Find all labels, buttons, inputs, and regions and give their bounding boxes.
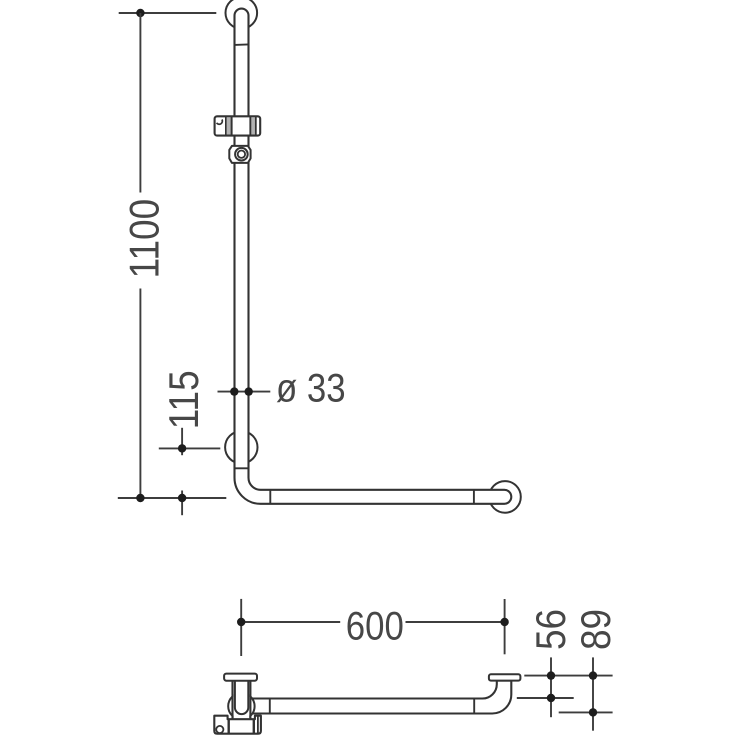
svg-text:600: 600 xyxy=(346,603,404,648)
bracket shaded band right xyxy=(251,117,255,134)
diameter leader dot right xyxy=(245,387,253,395)
89 datum dot xyxy=(589,671,597,679)
label diameter 33 xyxy=(276,365,346,410)
plan: bar right inner line xyxy=(257,716,259,734)
bracket divider line right xyxy=(255,117,257,136)
top wall rosette (behind tube) xyxy=(226,0,258,29)
600 dimension line left segment xyxy=(241,621,340,623)
plan: clamp left edge xyxy=(227,719,229,734)
plan: holder bar body with clamp notch xyxy=(214,716,261,734)
svg-text:ø 33: ø 33 xyxy=(276,365,346,410)
bottom extension line of front view xyxy=(118,497,227,499)
svg-text:56: 56 xyxy=(528,609,575,650)
bracket shaded band left xyxy=(227,117,231,134)
tube seam above bend xyxy=(235,467,249,469)
svg-text:89: 89 xyxy=(573,609,620,650)
600 right extension line xyxy=(504,599,506,654)
600 left dot xyxy=(237,618,245,626)
grab rail tube: vertical rail, 90-degree bend, horizontal bar with end cap xyxy=(235,9,512,504)
slider ring inner xyxy=(238,151,245,158)
56 vertical line xyxy=(550,657,552,717)
1100 bottom dot xyxy=(136,494,144,502)
shower head holder bracket body xyxy=(215,116,261,135)
plan: clamp right edge xyxy=(253,719,255,734)
plan: rail stub sleeve xyxy=(234,681,250,720)
wall face extension line (56/89 datum) xyxy=(524,675,612,677)
bracket divider line left inner xyxy=(231,117,233,136)
label 56 xyxy=(528,609,575,650)
plan: left wall plate xyxy=(224,674,257,681)
bracket screw hole xyxy=(217,120,223,125)
svg-text:115: 115 xyxy=(161,370,208,429)
56 end dot xyxy=(547,694,555,702)
89 vertical line xyxy=(592,657,594,730)
600 dimension line right segment xyxy=(406,621,505,623)
plan: horizontal bar tube with right bend to wall xyxy=(250,681,511,714)
1100 top dot xyxy=(136,9,144,17)
1100 dimension line upper segment xyxy=(139,13,141,193)
115 upper extension line xyxy=(159,447,221,449)
right wall rosette (behind tube end, horizontal bar) xyxy=(489,481,521,513)
diameter leader dot left xyxy=(230,387,238,395)
56 datum dot xyxy=(547,671,555,679)
tube seam right of bend xyxy=(269,490,271,504)
plan: tube seam right xyxy=(473,699,475,714)
89 measure line xyxy=(559,711,613,713)
slider ring outer xyxy=(235,148,248,161)
bracket divider line left xyxy=(225,117,227,136)
plan: holder disc behind rail stub xyxy=(228,693,254,719)
115 upper dot xyxy=(178,444,186,452)
label 115 xyxy=(161,370,208,429)
tube seam below top rosette xyxy=(235,43,249,46)
1100 dimension line lower segment xyxy=(139,289,141,499)
plan: tube seam left xyxy=(269,699,271,714)
plan: rail tube end (U cap) xyxy=(235,681,248,714)
600 right dot xyxy=(500,618,508,626)
115 lower tick xyxy=(181,491,183,516)
600 left extension line xyxy=(240,599,242,656)
bracket divider line right inner xyxy=(249,117,251,136)
1100 top extension line xyxy=(119,12,217,14)
115 lower dot xyxy=(178,494,186,502)
holder slider barrel xyxy=(229,146,250,163)
89 end dot xyxy=(589,708,597,716)
56 measure line xyxy=(517,697,574,699)
115 upper tick xyxy=(181,428,183,455)
label 89 xyxy=(573,609,620,650)
tube seam before right end cap xyxy=(473,490,475,504)
plan: bar screw hole xyxy=(216,726,223,733)
svg-text:1100: 1100 xyxy=(121,199,168,278)
diameter leader line xyxy=(218,391,271,393)
mid wall rosette (behind tube, at lower wall bracket) xyxy=(225,431,257,463)
label 1100 xyxy=(121,199,168,278)
plan: right wall plate xyxy=(489,674,521,680)
label 600 xyxy=(346,603,404,648)
